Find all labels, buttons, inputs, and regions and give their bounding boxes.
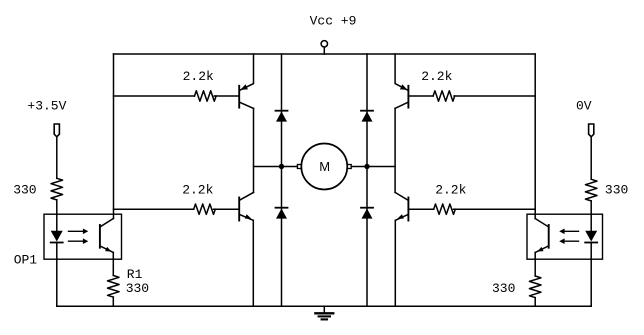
- wire Q4 emitter to ground rail: [394, 220, 396, 306]
- svg-text:2.2k: 2.2k: [183, 69, 214, 84]
- diode D1 (upper-left): [276, 54, 288, 167]
- resistor 330 left vertical: [51, 178, 63, 200]
- svg-text:+3.5V: +3.5V: [27, 99, 66, 114]
- diode D3 (upper-right): [361, 54, 373, 167]
- wire resistor to Q4 base: [408, 208, 433, 210]
- transistor Q1 (PNP top-left): [239, 54, 253, 108]
- wire R1 to ground rail: [112, 297, 114, 306]
- wire resistor to OP1 LED: [56, 200, 58, 231]
- wire Q1/Q2 collector vertical: [253, 108, 255, 192]
- OP1 light arrow 1: [69, 229, 89, 235]
- wire resistor to Q3 base: [408, 95, 433, 97]
- OP1 light arrow 2: [69, 238, 89, 244]
- wire resistor to ground rail: [534, 298, 536, 307]
- wire resistor to Q1 base: [214, 95, 238, 97]
- motor M: [297, 144, 351, 190]
- diode D4 (lower-right): [361, 167, 373, 307]
- OP2 LED: [585, 231, 597, 306]
- svg-text:0V: 0V: [576, 99, 592, 114]
- transistor Q4 (NPN bottom-right): [395, 192, 408, 220]
- svg-text:2.2k: 2.2k: [421, 69, 452, 84]
- OP1 LED: [51, 231, 63, 306]
- wire +3.5V to resistor: [56, 137, 58, 178]
- resistor 2.2k bottom-right: [434, 204, 456, 214]
- OP2 light arrow 2: [559, 238, 578, 244]
- svg-text:330: 330: [126, 281, 149, 296]
- wire Q3/Q4 collector vertical: [394, 108, 396, 192]
- wire base bottom-right: [454, 208, 536, 210]
- svg-text:330: 330: [492, 281, 515, 296]
- svg-text:R1: R1: [127, 267, 143, 282]
- svg-text:M: M: [319, 159, 330, 174]
- wire mid left: [254, 166, 298, 168]
- wire OP1 emitter to R1: [112, 253, 114, 276]
- svg-text:OP1: OP1: [14, 253, 38, 268]
- wire bottom rail: [57, 305, 591, 307]
- Vcc terminal: [321, 41, 327, 54]
- OP1 phototransistor: [100, 219, 113, 253]
- junction node left: [279, 164, 284, 169]
- wire top rail: [114, 53, 536, 55]
- optocoupler OP1 box: [44, 214, 122, 259]
- svg-text:2.2k: 2.2k: [435, 182, 466, 197]
- terminal +3.5V pin: [54, 124, 59, 137]
- svg-text:330: 330: [13, 182, 36, 197]
- wire resistor to right opto LED: [590, 201, 592, 231]
- svg-text:330: 330: [605, 182, 628, 197]
- resistor R1 330: [108, 276, 120, 298]
- wire right edge: [534, 54, 536, 219]
- wire mid right: [351, 166, 395, 168]
- wire base bottom-left: [114, 208, 194, 210]
- wire base top-right: [454, 95, 535, 97]
- svg-text:Vcc +9: Vcc +9: [310, 14, 357, 29]
- wire resistor to Q2 base: [214, 208, 239, 210]
- terminal 0V pin: [589, 124, 594, 137]
- resistor 2.2k top-left: [195, 91, 217, 101]
- transistor Q3 (PNP top-right): [395, 54, 408, 108]
- OP2 phototransistor: [535, 219, 549, 253]
- transistor Q2 (NPN bottom-left): [239, 192, 253, 220]
- resistor 2.2k bottom-left: [194, 204, 216, 214]
- wire Q2 emitter to ground rail: [252, 220, 254, 306]
- optocoupler OP2 box: [527, 214, 603, 259]
- resistor 2.2k top-right: [433, 91, 455, 101]
- svg-text:2.2k: 2.2k: [182, 182, 213, 197]
- wire base top-left: [114, 95, 195, 97]
- wire 0V to resistor: [590, 137, 592, 179]
- junction node right: [364, 164, 369, 169]
- OP2 light arrow 1: [559, 229, 578, 235]
- wire left edge: [113, 54, 115, 219]
- resistor 330 right vertical: [585, 179, 597, 201]
- diode D2 (lower-left): [276, 167, 288, 307]
- resistor 330 bottom-right: [529, 276, 541, 298]
- wire OP2 emitter to resistor: [534, 253, 536, 277]
- ground: [315, 306, 333, 319]
